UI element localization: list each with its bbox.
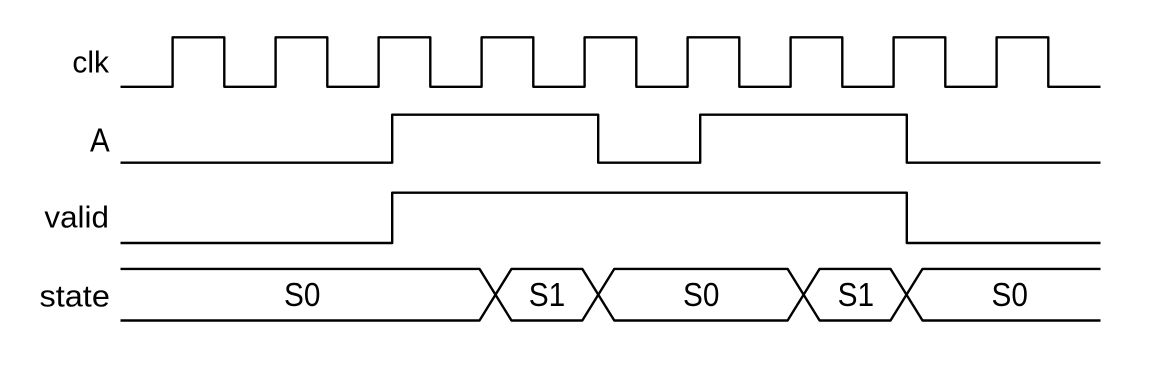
svg-text:A: A (90, 122, 110, 159)
svg-text:S1: S1 (529, 276, 566, 313)
wire state bus lower trace (121, 269, 1101, 321)
svg-text:S0: S0 (683, 276, 719, 313)
wire clk waveform (121, 37, 1101, 87)
svg-text:clk: clk (72, 45, 109, 80)
svg-text:state: state (40, 279, 110, 314)
svg-text:valid: valid (44, 200, 109, 235)
wire state bus upper trace (121, 269, 1101, 321)
wire valid waveform (121, 193, 1101, 243)
svg-text:S0: S0 (992, 276, 1028, 313)
wire A waveform (121, 115, 1101, 163)
svg-text:S1: S1 (838, 276, 875, 313)
svg-text:S0: S0 (284, 276, 320, 313)
